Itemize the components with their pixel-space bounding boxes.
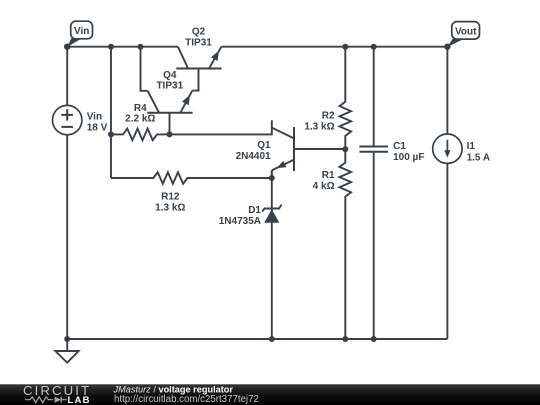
svg-text:R1: R1 bbox=[322, 170, 335, 181]
resistor R12 1.3k bbox=[111, 172, 272, 184]
svg-text:C1: C1 bbox=[393, 141, 406, 152]
svg-text:1.5 A: 1.5 A bbox=[467, 152, 491, 163]
wire left rail below Vin source bbox=[66, 135, 68, 339]
svg-text:Q1: Q1 bbox=[257, 140, 271, 151]
svg-text:18 V: 18 V bbox=[87, 123, 108, 134]
svg-text:4 kΩ: 4 kΩ bbox=[313, 181, 335, 192]
svg-text:1N4735A: 1N4735A bbox=[219, 216, 261, 227]
svg-text:R4: R4 bbox=[134, 103, 147, 114]
voltage source Vin 18V bbox=[52, 105, 81, 134]
node Vin flag bbox=[71, 21, 93, 39]
svg-text:1.3 kΩ: 1.3 kΩ bbox=[155, 203, 185, 214]
current source I1 1.5A bbox=[433, 134, 490, 163]
resistor R4 2.2k bbox=[111, 129, 170, 141]
wire top rail right (Q2 emitter to Vout node) bbox=[221, 46, 447, 48]
svg-text:LAB: LAB bbox=[68, 395, 91, 405]
resistor R2 1.3k bbox=[340, 47, 352, 150]
wire Q1 base to R2/R1 junction bbox=[294, 148, 345, 150]
svg-text:R2: R2 bbox=[322, 111, 335, 122]
CircuitLab logo bbox=[23, 383, 91, 405]
svg-text:R12: R12 bbox=[161, 192, 180, 203]
wire R4 junction to Q1 collector bbox=[170, 120, 272, 134]
wire right rail above I1 bbox=[446, 47, 448, 134]
node junction dots bbox=[108, 44, 114, 50]
capacitor C1 100uF bbox=[359, 47, 424, 339]
wire left rail above Vin source bbox=[66, 47, 68, 106]
wire second rail (top rail down to R12) bbox=[110, 47, 112, 178]
svg-text:2.2 kΩ: 2.2 kΩ bbox=[125, 114, 155, 125]
transistor Q2 TIP31 bbox=[176, 26, 221, 90]
wire Q1 emitter junction down through D1 to bottom rail bbox=[271, 170, 273, 339]
transistor Q1 2N4401 bbox=[236, 127, 294, 178]
node Vout flag bbox=[452, 22, 480, 39]
svg-text:JMasturz / voltage regulator: JMasturz / voltage regulator bbox=[113, 384, 234, 394]
svg-text:1.3 kΩ: 1.3 kΩ bbox=[304, 122, 334, 133]
wire top rail left (Vin node to Q2 collector) bbox=[67, 46, 178, 48]
wire right rail below I1 bbox=[446, 163, 448, 339]
svg-text:Vout: Vout bbox=[455, 26, 477, 37]
svg-text:TIP31: TIP31 bbox=[156, 81, 183, 92]
svg-text:Q2: Q2 bbox=[192, 26, 206, 37]
svg-text:I1: I1 bbox=[467, 141, 476, 152]
svg-text:2N4401: 2N4401 bbox=[236, 151, 271, 162]
svg-text:Vin: Vin bbox=[87, 111, 102, 122]
transistor Q4 TIP31 bbox=[147, 70, 192, 135]
svg-text:http://circuitlab.com/c25rt377: http://circuitlab.com/c25rt377tej72 bbox=[114, 394, 259, 405]
svg-text:Q4: Q4 bbox=[163, 70, 177, 81]
zener diode D1 1N4735A bbox=[219, 205, 282, 227]
wire bottom rail bbox=[67, 338, 447, 340]
svg-text:TIP31: TIP31 bbox=[185, 37, 212, 48]
ground bbox=[55, 339, 78, 363]
wire third rail (top rail to Q4 collector) bbox=[141, 47, 148, 91]
svg-text:100 µF: 100 µF bbox=[393, 152, 424, 163]
svg-text:Vin: Vin bbox=[74, 26, 89, 37]
resistor R1 4k bbox=[340, 149, 352, 339]
svg-text:D1: D1 bbox=[248, 205, 261, 216]
